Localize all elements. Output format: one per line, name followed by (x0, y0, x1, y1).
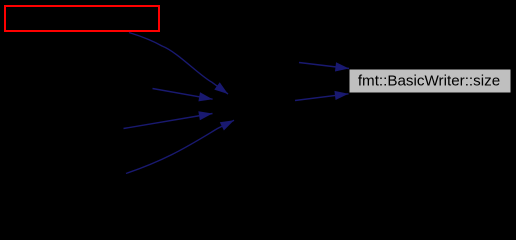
wire edge A: red node -> middle node (top) (129, 33, 228, 95)
wire edge B: hidden node L2 -> middle node (153, 89, 213, 100)
wire edge E: hidden middle node M1 -> size (299, 63, 349, 69)
wire edge C: hidden node L3 -> middle node (124, 114, 213, 129)
node fmt::BasicWriter::size (350, 70, 511, 93)
wire edge D: hidden node L4 -> middle node (126, 120, 234, 173)
node L1 (red truncated node, label invisible) (5, 6, 159, 31)
wire edge F: hidden middle node M2 -> size (295, 94, 349, 101)
svg-text:fmt::BasicWriter::size: fmt::BasicWriter::size (358, 73, 500, 90)
